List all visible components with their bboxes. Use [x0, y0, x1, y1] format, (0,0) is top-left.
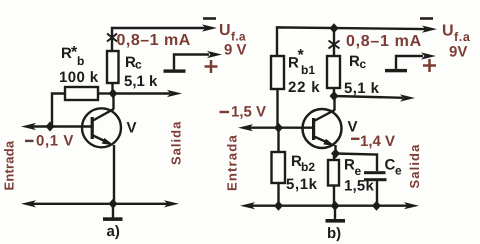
- svg-text:C: C: [385, 157, 396, 174]
- resistor Re (b): [328, 160, 339, 186]
- wire: Re bottom to rail: [333, 186, 335, 207]
- resistor Rc (b): [327, 56, 340, 88]
- plus sign (b): [423, 59, 436, 72]
- svg-text:1,5 V: 1,5 V: [231, 104, 266, 121]
- wire: emitter node to Re: [333, 154, 335, 161]
- wire: b) bottom rail with two arrows: [249, 204, 410, 206]
- svg-text:0,1 V: 0,1 V: [36, 133, 74, 150]
- svg-text:R: R: [349, 53, 360, 70]
- wire: a) output arrow to Salida: [113, 92, 170, 94]
- svg-text:22 k: 22 k: [288, 79, 320, 96]
- svg-text:c: c: [135, 58, 142, 72]
- svg-text:5,1 k: 5,1 k: [344, 80, 380, 97]
- svg-text:R: R: [344, 157, 355, 174]
- svg-text:5,1 k: 5,1 k: [124, 73, 158, 90]
- minus sign above arrow (b): [420, 17, 433, 20]
- svg-text:9 V: 9 V: [224, 42, 247, 59]
- wire: b) top supply wire: [277, 27, 426, 56]
- wire: Rb left down to base wire: [52, 94, 65, 127]
- wire: emitter node right to capacitor Ce: [336, 154, 378, 172]
- node: emitter junction (b): [331, 149, 340, 159]
- svg-text:Salida: Salida: [169, 121, 184, 165]
- node: rail junction at Rb2 (b): [274, 201, 283, 211]
- svg-text:b2: b2: [301, 160, 315, 174]
- arrow to Uf.a (b): [422, 26, 437, 33]
- node: collector junction (b): [330, 91, 339, 101]
- svg-text:U: U: [219, 22, 231, 39]
- resistor Rb2 (b): [272, 152, 286, 183]
- transistor V (a): [82, 108, 121, 147]
- plus sign (a): [205, 60, 218, 73]
- wire: Ce bottom to rail: [376, 181, 378, 206]
- breakpoint x symbol on b) collector wire: [329, 41, 340, 49]
- node: rail junction (a): [109, 199, 118, 209]
- transistor V (b): [303, 109, 342, 148]
- wire: base node down to Rb2: [277, 128, 279, 152]
- breakpoint x symbol on a) supply wire: [107, 34, 117, 42]
- svg-text:Entrada: Entrada: [225, 134, 240, 191]
- svg-text:U: U: [442, 23, 454, 40]
- node: top junction (b): [330, 23, 339, 33]
- svg-text:100 k: 100 k: [59, 69, 99, 86]
- wire: emitter vertical down to rail (a): [113, 145, 115, 204]
- wire: a) top supply wire: [112, 28, 206, 51]
- wire: collector vertical into transistor (a): [112, 94, 114, 110]
- resistor Rc (a): [107, 51, 119, 83]
- svg-text:e: e: [395, 164, 402, 178]
- svg-text:*: *: [298, 47, 305, 64]
- capacitor Ce: [364, 171, 386, 174]
- ground (b): [334, 206, 336, 220]
- svg-text:0,8–1 mA: 0,8–1 mA: [346, 33, 422, 50]
- node: base junction (b): [274, 123, 283, 133]
- svg-text:Entrada: Entrada: [2, 140, 17, 190]
- wire: Rc bottom to collector node: [333, 88, 335, 99]
- svg-text:V: V: [348, 119, 358, 136]
- wire: b) collector branch from top node: [333, 28, 335, 56]
- node: rail junction at Ce (b): [372, 201, 381, 211]
- node: rail junction at Re/ground (b): [331, 201, 340, 211]
- battery symbol (a): plate, elbow and + arrow: [164, 69, 186, 72]
- svg-text:c: c: [360, 57, 367, 71]
- arrow to Uf.a (a): [202, 24, 217, 31]
- resistor Rb1 (b): [271, 56, 284, 89]
- wire: Rb right to collector node: [98, 92, 113, 94]
- ground (a): [112, 204, 114, 218]
- label -1,5 V: [220, 111, 230, 113]
- wire: emitter to emitter node (b): [334, 145, 336, 154]
- svg-text:e: e: [355, 164, 362, 178]
- battery symbol (b): plate, elbow and + arrow: [385, 69, 407, 72]
- wire: Rb1 bottom to base node: [276, 89, 278, 128]
- svg-text:5,1k: 5,1k: [286, 176, 318, 193]
- svg-text:1,4 V: 1,4 V: [360, 133, 395, 150]
- svg-text:b: b: [77, 54, 84, 68]
- wire: a) input wire with left arrow: [30, 125, 92, 127]
- svg-text:Salida: Salida: [407, 144, 422, 189]
- svg-text:0,8–1 mA: 0,8–1 mA: [117, 32, 191, 49]
- svg-text:b1: b1: [301, 63, 315, 77]
- wire: b) output arrow to Salida: [334, 96, 403, 98]
- wire: b) input wire with left arrow: [247, 126, 313, 128]
- svg-text:9V: 9V: [449, 44, 467, 61]
- wire: a) bottom rail with two arrows: [30, 203, 170, 205]
- wire: Rc bottom to collector node: [111, 83, 113, 96]
- svg-text:V: V: [127, 120, 137, 137]
- wire: Rb2 bottom to rail: [277, 183, 279, 206]
- svg-text:f.a: f.a: [454, 30, 471, 44]
- svg-text:b): b): [327, 225, 341, 242]
- wire: collector vertical into transistor (b): [333, 96, 335, 110]
- node: base junction (a): [46, 122, 55, 132]
- minus sign above arrow (a): [203, 17, 216, 20]
- label -1,4 V: [351, 138, 360, 140]
- svg-text:a): a): [107, 223, 120, 240]
- label -0,1 V: [25, 140, 34, 142]
- resistor Rb (a): [65, 87, 98, 100]
- node: collector junction (a): [109, 89, 118, 99]
